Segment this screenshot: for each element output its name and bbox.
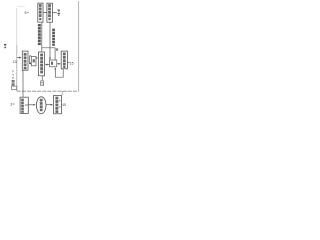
- ground/storage symbol under LMB: [41, 76, 43, 81]
- S-wire from middle small box back into LT: [29, 56, 31, 64]
- arrow MSB to LMB: [36, 57, 38, 59]
- wire from box B down with arrow: [49, 23, 51, 60]
- ellipse E: [36, 97, 46, 114]
- box B (top-right tall box): [47, 3, 53, 22]
- svg-text:10: 10: [25, 103, 29, 107]
- left tall box LT: [22, 51, 28, 70]
- box B2 (bottom-right): [54, 95, 62, 113]
- arrow from left rule into left tall box: [17, 57, 21, 59]
- label 15 right of RB: [68, 61, 70, 63]
- wire LT bottom down to B1 (crosses separator): [22, 70, 24, 97]
- glyph chain label right of wire: [52, 29, 55, 46]
- branch wire: horizontal at y=47.8 then down to center box: [42, 48, 55, 60]
- page rule right: [78, 1, 80, 91]
- wire RB bottom down then left with arrow: [55, 68, 63, 77]
- box A (top-left tall box): [38, 3, 43, 22]
- box B1 (bottom-left): [20, 97, 28, 113]
- box LMB (left-middle tall box): [39, 52, 45, 76]
- svg-text:P: P: [12, 76, 14, 80]
- horizontal distribution wire with arrows both ends: [46, 64, 50, 66]
- label 15 right of B2: [61, 104, 62, 106]
- separator line bottom: [17, 90, 79, 92]
- small box at column bottom: [12, 86, 17, 90]
- output arrow right of box B + label: [53, 12, 57, 14]
- svg-text:15: 15: [62, 103, 66, 107]
- short wire from separator to B2 top: [61, 91, 63, 95]
- small mark near branch corner: [56, 48, 58, 50]
- page rule top (faint): [17, 6, 25, 8]
- svg-text:15: 15: [70, 61, 74, 65]
- glyph chain label left of wire: [38, 24, 41, 45]
- svg-text:5: 5: [25, 11, 27, 15]
- arrow E to B2: [46, 104, 52, 106]
- arrow B1 to ellipse: [29, 104, 36, 106]
- page rule left: [16, 8, 18, 45]
- svg-text:10: 10: [13, 60, 17, 64]
- center small box CB: [50, 60, 57, 67]
- middle small box MSB: [31, 56, 36, 65]
- connector A-B: [43, 11, 47, 13]
- box RB (right tall box): [61, 51, 67, 69]
- wire from box A down to left-mid box: [41, 23, 43, 53]
- label 6 (left margin marks): [4, 44, 6, 48]
- svg-text:3: 3: [10, 102, 12, 106]
- margin vertical text column (FTP...): [12, 70, 15, 86]
